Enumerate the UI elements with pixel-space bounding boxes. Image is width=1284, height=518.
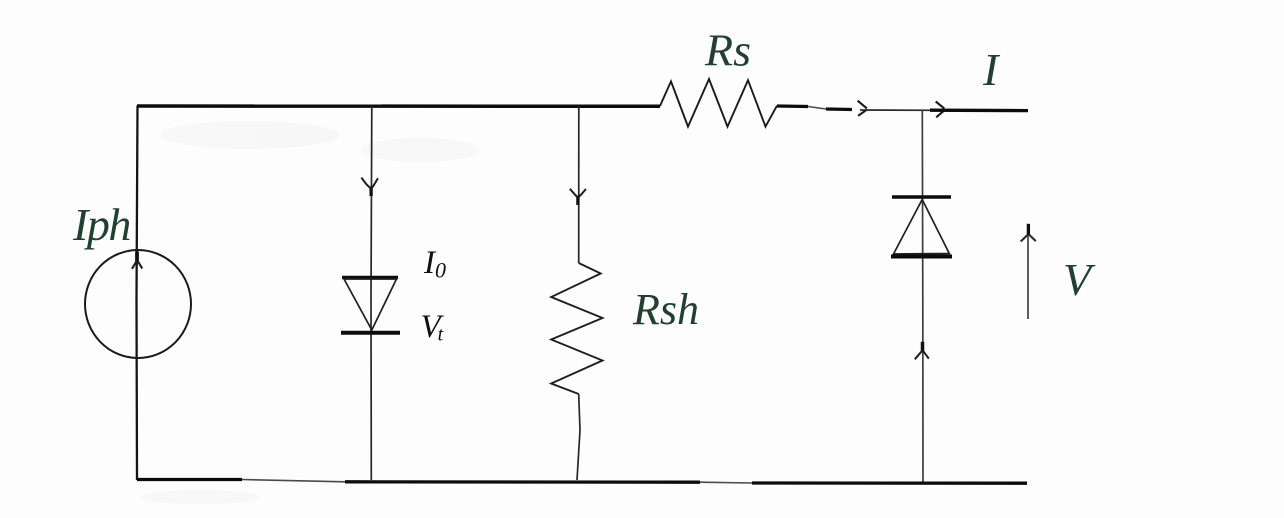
wire: diode branch vertical	[370, 106, 373, 480]
arrowhead current I (second)	[936, 102, 945, 118]
arrowhead current I (first)	[858, 101, 867, 116]
current source arrow (up)	[135, 252, 139, 262]
diode D1 cathode-side top bar	[342, 276, 398, 280]
wire: after Rs with slight bend	[777, 104, 808, 108]
svg-text:I: I	[982, 44, 1001, 95]
diode D2 cathode bar (top)	[892, 195, 951, 199]
diode D1 triangle	[344, 279, 397, 330]
wire: top horizontal (left section, node A to Rs)	[137, 104, 660, 108]
arrowhead Rsh branch current (down)	[576, 196, 579, 206]
svg-text:V: V	[1063, 254, 1096, 305]
svg-text:Vt: Vt	[421, 309, 445, 346]
wire: Rsh branch vertical (top)	[578, 106, 580, 263]
wire: bottom horizontal	[137, 478, 242, 481]
background smudges	[140, 121, 480, 504]
wire: top right to output terminal	[930, 109, 1028, 113]
svg-text:I0: I0	[423, 245, 446, 283]
svg-text:Rs: Rs	[704, 25, 751, 76]
arrowhead right branch current (up)	[921, 342, 925, 352]
svg-text:Iph: Iph	[72, 199, 130, 250]
svg-text:Rsh: Rsh	[632, 285, 699, 334]
wire: left vertical branch	[137, 106, 138, 481]
current source Iph circle	[85, 250, 191, 358]
wire: between arrows	[860, 109, 933, 111]
voltage arrow V shaft	[1027, 232, 1029, 319]
diode D2 anode bar (bottom)	[891, 255, 952, 259]
wire: right output branch vertical	[921, 111, 924, 484]
resistor Rsh (zigzag)	[551, 263, 602, 394]
diode D1 bottom bar	[341, 331, 400, 335]
diode D2 triangle (pointing up)	[894, 200, 950, 255]
arrowhead diode branch current (down)	[369, 187, 372, 197]
voltage arrow V head	[1027, 224, 1030, 235]
resistor Rs (zigzag)	[660, 79, 777, 127]
wire: Rsh branch vertical (bottom)	[577, 394, 580, 480]
